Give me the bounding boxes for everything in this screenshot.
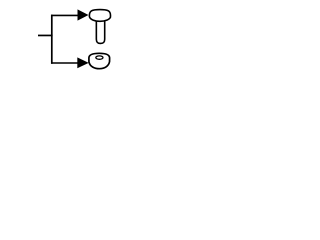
arrow to washer [77, 57, 88, 68]
wire top branch [51, 14, 78, 16]
arrow to bolt [78, 9, 89, 20]
bolt head (cylinder) [89, 10, 110, 22]
washer hole [96, 56, 103, 59]
washer body (cylinder) [89, 53, 110, 68]
wire bottom branch [51, 62, 78, 64]
bolt shank [96, 21, 104, 44]
wire input stub [38, 34, 53, 36]
wire vertical branch bus [51, 15, 53, 64]
